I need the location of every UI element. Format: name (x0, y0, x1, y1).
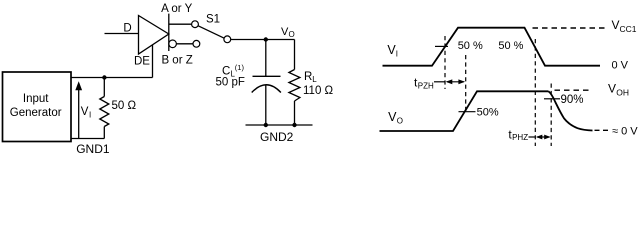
output stem bar (168, 14, 170, 51)
tPHZ arrow line (537, 136, 550, 138)
dashed VCC1 level line (533, 27, 607, 29)
svg-text:V: V (608, 82, 616, 96)
svg-text:PHZ: PHZ (512, 133, 528, 142)
svg-text:(1): (1) (235, 63, 245, 72)
inversion bubble (169, 40, 177, 48)
svg-text:OH: OH (616, 87, 629, 97)
capacitor CL wire top (265, 40, 267, 77)
svg-text:V: V (81, 106, 89, 118)
svg-text:50 %: 50 % (498, 40, 523, 52)
dashed VOH level line (555, 89, 592, 91)
svg-text:B or Z: B or Z (161, 55, 192, 67)
svg-text:L: L (312, 75, 317, 84)
svg-text:50 %: 50 % (458, 40, 483, 52)
svg-text:V: V (612, 18, 620, 32)
tPHZ leader (529, 136, 536, 138)
tick VO rise 50% (459, 111, 476, 113)
dashed cursor 1 VI rise 50% (444, 36, 446, 89)
svg-text:A or Y: A or Y (161, 3, 192, 15)
svg-text:90%: 90% (561, 94, 584, 106)
wire DE riser (152, 45, 154, 78)
svg-text:I: I (396, 50, 398, 59)
svg-text:DE: DE (134, 55, 150, 67)
svg-text:≈ 0 V: ≈ 0 V (612, 125, 638, 137)
switch S1 blade (198, 26, 224, 39)
svg-text:Generator: Generator (10, 107, 62, 119)
wire A or Y output (169, 23, 192, 25)
svg-text:V: V (388, 110, 397, 124)
terminal circle A/Y (192, 21, 199, 28)
wire B or Z output (176, 43, 193, 45)
input generator label (10, 93, 62, 119)
capacitor CL wire bottom (265, 85, 267, 125)
VO falling decay curve (549, 91, 593, 130)
tPHZ arrowheads (536, 135, 542, 140)
resistor R 50 ohm (103, 78, 105, 97)
VO label (281, 26, 295, 39)
junction dot RL to gnd2 (292, 123, 296, 127)
RL label (303, 71, 334, 97)
wire switch to RL corner (231, 39, 295, 41)
svg-text:50 Ω: 50 Ω (112, 100, 137, 112)
input generator box (3, 72, 72, 142)
svg-text:PZH: PZH (418, 81, 434, 90)
svg-text:O: O (289, 30, 295, 39)
svg-text:D: D (123, 23, 131, 35)
svg-text:CC1: CC1 (620, 24, 637, 34)
switch pole circle (224, 36, 231, 43)
VI measurement arrow (78, 89, 80, 139)
svg-text:S1: S1 (206, 14, 220, 26)
svg-text:Input: Input (23, 93, 49, 105)
svg-text:GND1: GND1 (76, 142, 110, 156)
svg-text:50 pF: 50 pF (216, 76, 245, 88)
ground GND1 rail (72, 138, 105, 140)
ground GND2 rail (246, 124, 313, 126)
wire D input (105, 33, 139, 35)
dashed cursor 4 VO 90% (550, 84, 552, 147)
terminal circle B/Z (193, 40, 200, 47)
junction dot cap to gnd2 (264, 123, 268, 127)
resistor RL (294, 40, 296, 70)
svg-text:110 Ω: 110 Ω (303, 85, 334, 97)
node VO junction dot (264, 37, 268, 41)
driver triangle U1 (139, 16, 169, 55)
tick VO 90% (544, 98, 560, 100)
svg-text:GND2: GND2 (260, 130, 294, 144)
svg-text:R: R (304, 71, 312, 83)
node junction dot at resistor top (102, 75, 106, 79)
svg-text:I: I (89, 110, 91, 119)
tick VI rise 50% (435, 45, 448, 47)
VI waveform (383, 28, 601, 66)
dashed approx 0V tail (595, 129, 610, 131)
tPZH leader (434, 81, 445, 83)
CL label (216, 63, 245, 89)
VI label (81, 106, 92, 120)
tPZH arrowheads (446, 79, 453, 84)
tPZH arrow line (447, 81, 464, 83)
svg-text:50%: 50% (477, 106, 499, 118)
capacitor CL plates (253, 75, 281, 77)
VO waveform (380, 91, 549, 131)
svg-text:0 V: 0 V (612, 59, 629, 71)
wire main from box to DE riser (72, 77, 153, 79)
svg-text:O: O (397, 116, 403, 125)
dashed cursor 2 VO rise 50% (465, 55, 467, 113)
dashed cursor 3 VI fall 50% (534, 39, 536, 146)
